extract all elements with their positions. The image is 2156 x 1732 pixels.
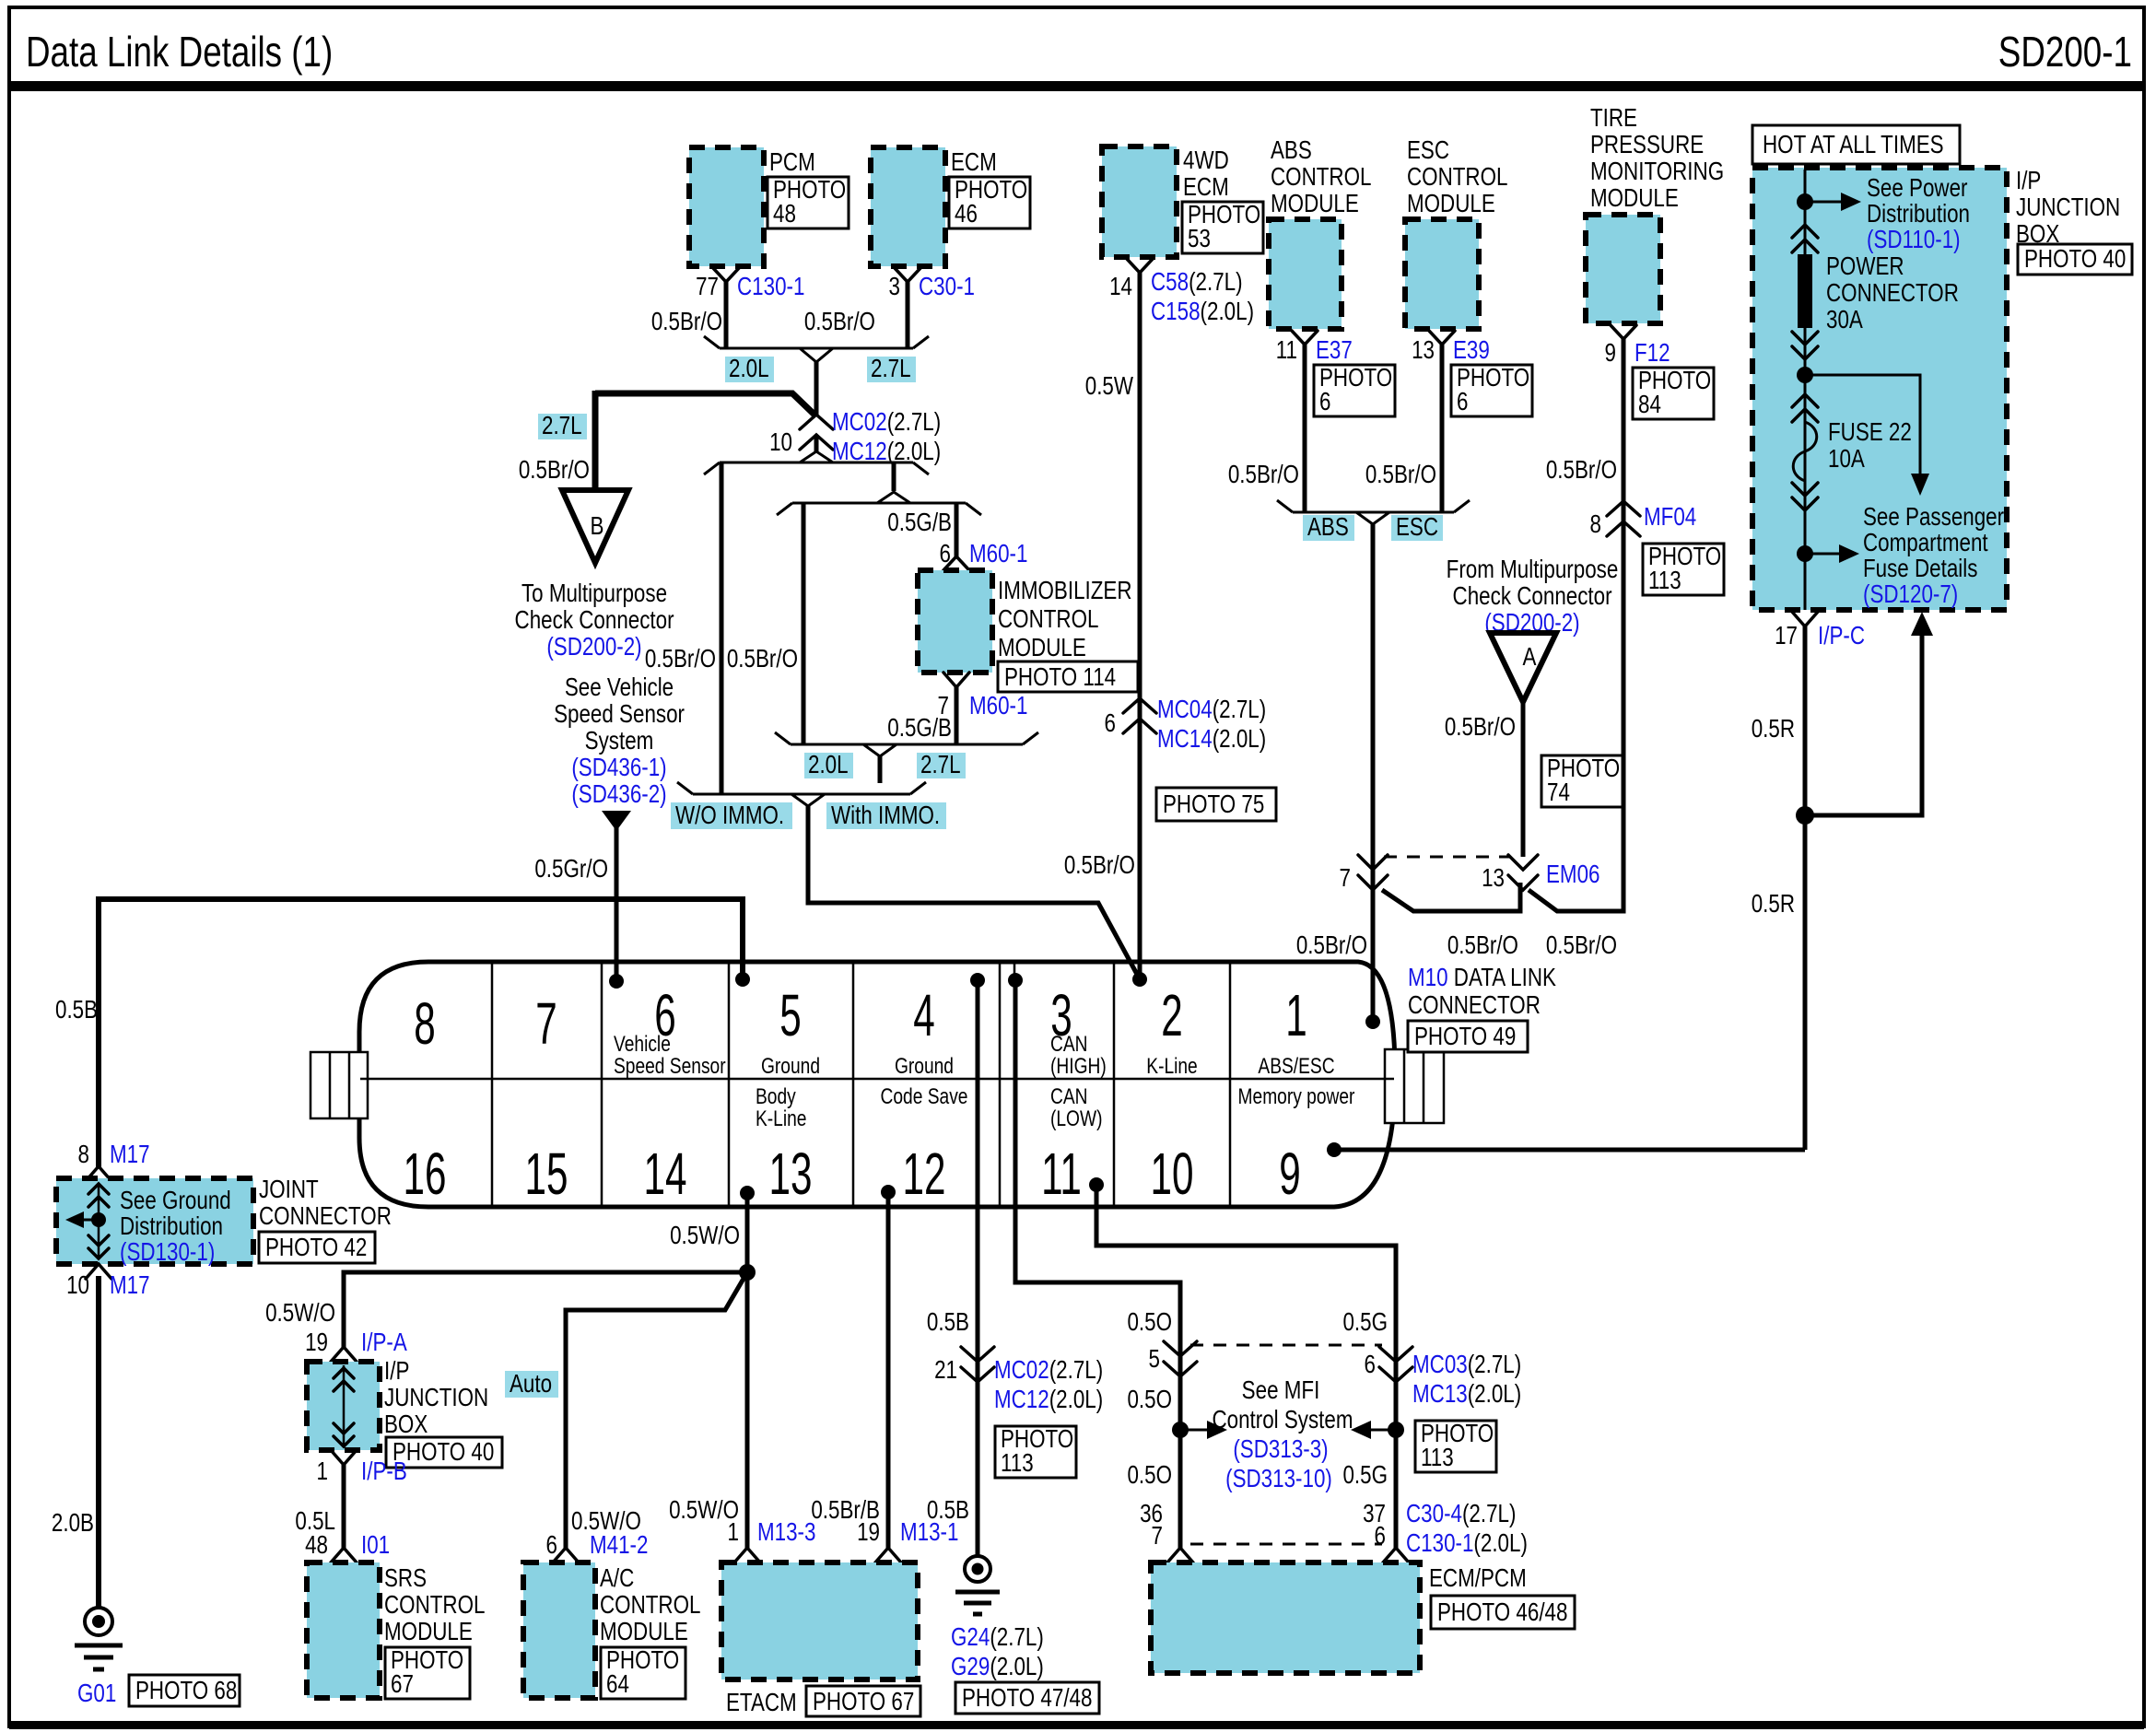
wire to passenger fuse details arrow (1805, 375, 1920, 475)
svg-text:8: 8 (414, 991, 435, 1057)
off-page triangle B (562, 490, 628, 563)
module SRS CONTROL MODULE (cyan dashed box) (307, 1562, 380, 1698)
svg-text:5: 5 (1149, 1345, 1160, 1374)
dashed MFI box top (1190, 1344, 1382, 1347)
photo box PHOTO 75 (1156, 788, 1276, 821)
node pin 1 dot (1365, 1014, 1380, 1029)
svg-text:4: 4 (913, 983, 934, 1048)
svg-text:PHOTO 68: PHOTO 68 (135, 1677, 237, 1705)
photo box PHOTO 6 (1451, 364, 1532, 416)
svg-text:MC04(2.7L): MC04(2.7L) (1157, 696, 1266, 724)
svg-text:W/O IMMO.: W/O IMMO. (675, 802, 784, 830)
connector Y at tire module pin 9 (1611, 325, 1636, 339)
svg-text:CONTROL: CONTROL (384, 1591, 485, 1620)
photo box PHOTO 42 (259, 1232, 375, 1263)
svg-text:2.0L: 2.0L (808, 751, 849, 779)
svg-text:PHOTO 40: PHOTO 40 (2024, 245, 2126, 274)
svg-text:Control System: Control System (1212, 1406, 1353, 1434)
svg-text:PHOTO 42: PHOTO 42 (265, 1234, 367, 1262)
node pin 5 dot (735, 972, 750, 987)
svg-text:13: 13 (1482, 864, 1505, 893)
svg-text:ABS: ABS (1271, 136, 1312, 165)
svg-text:With IMMO.: With IMMO. (831, 802, 940, 830)
svg-text:I01: I01 (361, 1531, 390, 1560)
svg-text:PHOTO 47/48: PHOTO 47/48 (962, 1684, 1092, 1713)
chevrons above power connector (1792, 225, 1818, 252)
inline connector MC03/MC13 pin 6 (1379, 1347, 1412, 1382)
svg-text:ESC: ESC (1407, 136, 1449, 165)
title bar underline (9, 81, 2144, 91)
junction dot 0.5R (1796, 806, 1814, 825)
arrowhead from speed sensor system (602, 811, 631, 831)
svg-text:I/P: I/P (384, 1357, 409, 1386)
svg-text:0.5Br/O: 0.5Br/O (1447, 931, 1518, 960)
node pin 9 dot (1327, 1142, 1342, 1157)
label box HOT AT ALL TIMES (1752, 125, 1960, 164)
svg-text:(SD120-7): (SD120-7) (1863, 580, 1958, 609)
svg-text:Distribution: Distribution (1867, 200, 1970, 228)
junction dot MFI left (1172, 1422, 1189, 1438)
svg-text:7: 7 (1152, 1522, 1163, 1551)
svg-text:See MFI: See MFI (1242, 1376, 1320, 1405)
svg-text:MC14(2.0L): MC14(2.0L) (1157, 725, 1266, 754)
svg-text:MC02(2.7L): MC02(2.7L) (832, 408, 941, 437)
svg-text:0.5Br/O: 0.5Br/O (1546, 931, 1617, 960)
svg-text:CONNECTOR: CONNECTOR (1826, 279, 1959, 308)
svg-text:(SD130-1): (SD130-1) (120, 1238, 215, 1267)
svg-text:ABS: ABS (1307, 513, 1349, 542)
svg-text:A: A (1523, 643, 1537, 672)
svg-text:JUNCTION: JUNCTION (2016, 193, 2120, 222)
connector Y into immobilizer (943, 556, 969, 570)
connector Y into ECM/PCM right (1383, 1548, 1409, 1562)
svg-text:19: 19 (305, 1328, 328, 1357)
wire 2.7L branch horizontal (595, 393, 816, 416)
photo box PHOTO 74 (1541, 755, 1623, 807)
photo box PHOTO 113 (1415, 1420, 1496, 1472)
wire I/P-B to SRS (342, 1465, 346, 1548)
svg-text:G24(2.7L): G24(2.7L) (951, 1623, 1044, 1652)
svg-text:48: 48 (305, 1531, 328, 1560)
svg-text:0.5G: 0.5G (1342, 1308, 1388, 1337)
inline connector MC02/MC12 pin 21 (961, 1347, 994, 1382)
svg-text:0.5R: 0.5R (1752, 890, 1795, 919)
svg-text:1: 1 (317, 1457, 328, 1486)
dashed link connector 7-13 (1384, 856, 1509, 859)
wire MC02 to split bus 1 (814, 435, 819, 451)
svg-text:14: 14 (644, 1141, 687, 1207)
photo box PHOTO 84 (1633, 367, 1714, 419)
wire branch down to B triangle (592, 391, 599, 490)
svg-text:IMMOBILIZER: IMMOBILIZER (998, 577, 1132, 605)
svg-text:C158(2.0L): C158(2.0L) (1151, 298, 1254, 326)
svg-text:(SD436-2): (SD436-2) (571, 780, 666, 809)
svg-text:Fuse Details: Fuse Details (1863, 555, 1977, 583)
wire drop to immobilizer (955, 503, 959, 557)
svg-text:30A: 30A (1826, 306, 1863, 334)
svg-text:14: 14 (1109, 273, 1132, 301)
svg-text:M17: M17 (110, 1271, 150, 1300)
svg-text:PHOTO 49: PHOTO 49 (1414, 1023, 1516, 1051)
svg-text:G01: G01 (77, 1679, 116, 1708)
svg-text:(SD200-2): (SD200-2) (546, 633, 641, 661)
dashed MFI box bottom (1190, 1543, 1382, 1546)
arrow left ground distribution (84, 1219, 99, 1222)
svg-text:See Passenger: See Passenger (1863, 503, 2005, 532)
svg-text:C30-4(2.7L): C30-4(2.7L) (1406, 1500, 1516, 1528)
svg-text:2.7L: 2.7L (871, 355, 911, 383)
svg-text:JUNCTION: JUNCTION (384, 1384, 488, 1412)
connector grid lines (360, 962, 1394, 1207)
svg-text:46: 46 (955, 200, 978, 228)
svg-text:SD200-1: SD200-1 (1998, 28, 2132, 76)
svg-text:6: 6 (1319, 388, 1330, 416)
svg-text:8: 8 (1590, 510, 1601, 539)
ground symbol G01 (75, 1608, 123, 1669)
svg-text:15: 15 (525, 1141, 568, 1207)
wire PCM to merge bus (724, 282, 729, 348)
svg-text:0.5W: 0.5W (1085, 372, 1133, 401)
svg-text:67: 67 (391, 1670, 414, 1699)
svg-text:0.5Br/O: 0.5Br/O (1546, 456, 1617, 485)
photo box PHOTO 40 (2018, 244, 2132, 275)
svg-text:(HIGH): (HIGH) (1050, 1053, 1107, 1079)
svg-text:(LOW): (LOW) (1050, 1106, 1102, 1131)
svg-text:6: 6 (1365, 1351, 1376, 1379)
connector Y at ABS pin 11 (1292, 331, 1318, 345)
svg-text:0.5O: 0.5O (1127, 1386, 1172, 1414)
connector Y at ESC pin 13 (1429, 331, 1455, 345)
svg-text:113: 113 (1001, 1449, 1034, 1478)
wire ABS/ESC merged down to pin 1 (1371, 524, 1376, 1022)
svg-text:0.5O: 0.5O (1127, 1308, 1172, 1337)
svg-text:PHOTO 46/48: PHOTO 46/48 (1437, 1598, 1567, 1627)
svg-text:Speed Sensor: Speed Sensor (614, 1053, 726, 1079)
svg-text:11: 11 (1276, 336, 1297, 365)
svg-text:CONTROL: CONTROL (1407, 163, 1507, 192)
connector Y into ECM/PCM left (1167, 1548, 1193, 1562)
svg-text:0.5G/B: 0.5G/B (887, 509, 952, 537)
svg-text:FUSE 22: FUSE 22 (1828, 418, 1912, 447)
svg-text:ABS/ESC: ABS/ESC (1258, 1053, 1334, 1079)
svg-text:C130-1(2.0L): C130-1(2.0L) (1406, 1529, 1528, 1558)
svg-text:CONTROL: CONTROL (600, 1591, 700, 1620)
arrow to MFI (right) (1180, 1429, 1207, 1432)
svg-text:See Ground: See Ground (120, 1187, 231, 1215)
svg-text:Ground: Ground (761, 1053, 820, 1079)
node pin 4 dot (970, 973, 985, 988)
junction dot body k-line (739, 1264, 756, 1281)
svg-text:PHOTO 40: PHOTO 40 (393, 1438, 494, 1467)
svg-text:CONTROL: CONTROL (1271, 163, 1371, 192)
svg-text:0.5O: 0.5O (1127, 1461, 1172, 1490)
svg-text:1: 1 (728, 1518, 739, 1547)
photo box PHOTO 68 (129, 1675, 240, 1706)
svg-text:0.5R: 0.5R (1752, 715, 1795, 743)
svg-text:10: 10 (66, 1271, 89, 1300)
photo box PHOTO 48 (767, 176, 849, 228)
svg-text:0.5W/O: 0.5W/O (670, 1222, 740, 1250)
svg-text:13: 13 (1412, 336, 1435, 365)
tag ABS (1303, 513, 1354, 542)
merge bus ABS/ESC (1277, 500, 1470, 524)
tag Auto (505, 1370, 558, 1398)
photo box PHOTO 53 (1182, 201, 1263, 253)
wire drop to split bus 2 (892, 462, 896, 491)
module TIRE PRESSURE (cyan dashed box) (1586, 215, 1660, 323)
svg-text:1: 1 (1285, 983, 1306, 1048)
svg-text:CONTROL: CONTROL (998, 605, 1098, 634)
svg-text:64: 64 (606, 1670, 629, 1699)
svg-text:G29(2.0L): G29(2.0L) (951, 1653, 1044, 1681)
tag W/O IMMO. (671, 802, 792, 830)
svg-text:0.5Br/O: 0.5Br/O (1228, 461, 1299, 489)
connector Y at fuse box output I/P-C (1792, 612, 1818, 626)
svg-text:74: 74 (1547, 778, 1570, 807)
wire K-line to pin 2 (808, 806, 1140, 979)
connector Y into SRS (331, 1548, 357, 1562)
svg-text:BOX: BOX (384, 1410, 428, 1439)
svg-text:2.0L: 2.0L (729, 355, 769, 383)
svg-text:K-Line: K-Line (1146, 1053, 1197, 1079)
svg-text:To Multipurpose: To Multipurpose (521, 579, 667, 608)
svg-text:Compartment: Compartment (1863, 529, 1988, 557)
svg-text:CONNECTOR: CONNECTOR (1408, 991, 1541, 1020)
internal arrow I/P box (334, 1365, 354, 1446)
svg-text:3: 3 (889, 273, 900, 301)
svg-text:4WD: 4WD (1183, 146, 1229, 175)
svg-text:MODULE: MODULE (1590, 184, 1679, 213)
inline connector MC02/MC12 pin 10 (800, 415, 833, 450)
svg-text:PCM: PCM (769, 148, 815, 177)
wire I/P-C down (1803, 626, 1808, 1150)
split bus 2 (777, 492, 981, 515)
connector M10 outline (359, 962, 1395, 1207)
connector chevron into joint box (86, 1166, 111, 1181)
node pin 6 dot (609, 974, 624, 989)
module A/C CONTROL MODULE (cyan dashed box) (523, 1562, 595, 1698)
junction dot ground distribution (91, 1212, 106, 1227)
wire 4WD ECM down to pin 2 (1138, 273, 1142, 979)
svg-text:2: 2 (1161, 983, 1182, 1048)
connector Y at ECM pin 3 (895, 268, 920, 282)
svg-text:2.7L: 2.7L (920, 751, 961, 779)
svg-text:ECM: ECM (951, 148, 997, 177)
svg-text:77: 77 (696, 273, 719, 301)
svg-text:Auto: Auto (510, 1370, 552, 1398)
connector marker I/P-B (331, 1450, 357, 1465)
svg-text:HOT AT ALL TIMES: HOT AT ALL TIMES (1763, 131, 1944, 159)
connector chevron out of joint box (86, 1264, 111, 1279)
svg-text:EM06: EM06 (1546, 860, 1600, 889)
wire fuse box vertical (1804, 170, 1807, 610)
svg-text:0.5Br/O: 0.5Br/O (1365, 461, 1436, 489)
junction dot before fuse (1797, 367, 1813, 383)
merge bus 2 (W/O IMMO / With IMMO) (677, 782, 926, 806)
fuse symbol FUSE 22 (1792, 394, 1818, 422)
module ECM/PCM (cyan dashed box) (1151, 1562, 1420, 1673)
svg-text:16: 16 (404, 1141, 447, 1207)
svg-text:0.5Br/O: 0.5Br/O (1445, 713, 1516, 742)
svg-text:MODULE: MODULE (1407, 190, 1495, 218)
wire tire module down (1622, 339, 1626, 884)
chevrons below power connector (1792, 332, 1818, 359)
module ABS CONTROL MODULE (cyan dashed box) (1269, 219, 1342, 329)
svg-text:I/P-B: I/P-B (361, 1457, 407, 1486)
svg-text:Speed Sensor: Speed Sensor (554, 700, 685, 729)
svg-text:MODULE: MODULE (600, 1618, 688, 1646)
svg-text:0.5Br/O: 0.5Br/O (645, 645, 716, 673)
wire memory power horizontal to pin 9 (1334, 1148, 1805, 1153)
svg-text:53: 53 (1188, 225, 1211, 253)
node pin 3 dot (1008, 973, 1023, 988)
svg-text:I/P-A: I/P-A (361, 1328, 407, 1357)
svg-text:0.5Br/O: 0.5Br/O (1296, 931, 1367, 960)
svg-text:0.5W/O: 0.5W/O (265, 1299, 335, 1328)
connector marker I/P-A (331, 1347, 357, 1362)
wire branch up arrow into fuse box (1805, 634, 1922, 815)
svg-text:48: 48 (773, 200, 796, 228)
wire A down to EM06 (1521, 702, 1526, 857)
svg-text:PHOTO 114: PHOTO 114 (1004, 663, 1116, 692)
svg-text:Distribution: Distribution (120, 1212, 223, 1241)
inline connector pin 7 (to EM06) (1358, 855, 1388, 890)
svg-text:6: 6 (1105, 709, 1116, 738)
module ECM (cyan dashed box) (871, 147, 945, 266)
inline connector pin 5 (1164, 1341, 1197, 1376)
svg-text:(SD110-1): (SD110-1) (1867, 226, 1961, 254)
svg-text:13: 13 (769, 1141, 813, 1207)
photo box PHOTO 67 (385, 1646, 470, 1699)
module IMMOBILIZER CONTROL MODULE (cyan dashed box) (918, 570, 992, 673)
svg-text:11: 11 (1041, 1141, 1082, 1207)
svg-text:B: B (591, 512, 604, 541)
off-page triangle A (1490, 633, 1556, 702)
svg-text:From Multipurpose: From Multipurpose (1447, 556, 1619, 584)
tag 2.0L (804, 751, 853, 779)
svg-text:7: 7 (535, 991, 557, 1057)
svg-text:2.7L: 2.7L (542, 412, 582, 440)
svg-text:0.5B: 0.5B (927, 1308, 969, 1337)
tag 2.7L (867, 355, 916, 383)
svg-text:See Power: See Power (1867, 174, 1968, 203)
wire pin7 branch to EM06 (1382, 883, 1520, 911)
svg-text:Check Connector: Check Connector (515, 606, 674, 635)
wire M17 to ground G01 (96, 1276, 101, 1607)
arrow to see passenger fuse details (1805, 553, 1839, 556)
svg-text:0.5B: 0.5B (927, 1496, 969, 1525)
svg-text:M10 DATA LINK: M10 DATA LINK (1408, 964, 1556, 992)
svg-text:6: 6 (546, 1531, 557, 1560)
svg-text:5: 5 (779, 983, 801, 1048)
svg-text:9: 9 (1605, 339, 1616, 368)
svg-text:19: 19 (857, 1518, 880, 1547)
photo box PHOTO 46 (949, 176, 1030, 228)
I/P junction box (cyan dashed) (307, 1362, 380, 1450)
bottom frame line (9, 1721, 2144, 1729)
svg-text:0.5Br/O: 0.5Br/O (1064, 851, 1135, 880)
svg-text:CONNECTOR: CONNECTOR (259, 1202, 392, 1231)
connector Y into ETACM right (875, 1548, 901, 1562)
module 4WD ECM (cyan dashed box) (1102, 146, 1177, 257)
svg-text:PHOTO 67: PHOTO 67 (813, 1688, 914, 1716)
merge arms to node (800, 348, 833, 362)
svg-text:MONITORING: MONITORING (1590, 158, 1724, 186)
svg-text:84: 84 (1638, 391, 1661, 419)
svg-text:MC12(2.0L): MC12(2.0L) (994, 1386, 1103, 1414)
photo box PHOTO 6 (1314, 364, 1395, 416)
photo box PHOTO 40 (386, 1437, 502, 1468)
joint connector internal arrow (88, 1183, 109, 1258)
svg-text:0.5G: 0.5G (1342, 1461, 1388, 1490)
svg-text:17: 17 (1775, 622, 1798, 650)
wire pin 5 to left rail (99, 899, 743, 1168)
svg-text:PRESSURE: PRESSURE (1590, 131, 1704, 159)
svg-text:K-Line: K-Line (756, 1106, 806, 1131)
module ESC CONTROL MODULE (cyan dashed box) (1405, 219, 1479, 329)
wire merged down (878, 756, 883, 783)
svg-text:ECM: ECM (1183, 173, 1229, 202)
wire pin 13 down (745, 1193, 750, 1272)
photo box PHOTO 113 (1643, 543, 1724, 595)
junction dot power distribution (1797, 193, 1813, 210)
wire ECM to merge bus (906, 282, 910, 348)
svg-text:SRS: SRS (384, 1564, 427, 1593)
svg-text:12: 12 (903, 1141, 946, 1207)
svg-text:(SD313-3): (SD313-3) (1233, 1435, 1328, 1464)
wire merged down to MC02 connector (814, 362, 819, 415)
arrow to see power distribution (1805, 201, 1841, 204)
svg-text:6: 6 (1457, 388, 1468, 416)
svg-text:E39: E39 (1453, 336, 1490, 365)
svg-text:MODULE: MODULE (1271, 190, 1359, 218)
photo box PHOTO 113 (995, 1425, 1076, 1478)
tag 2.7L (917, 751, 966, 779)
inline connector MF04 pin 8 (1607, 501, 1640, 536)
svg-text:ETACM: ETACM (726, 1689, 797, 1717)
svg-text:(SD436-1): (SD436-1) (571, 754, 666, 782)
svg-text:10A: 10A (1828, 445, 1865, 474)
svg-text:6: 6 (1375, 1522, 1386, 1551)
svg-text:(SD313-10): (SD313-10) (1225, 1465, 1332, 1493)
inline connector MC04/MC14 pin 6 (1123, 698, 1156, 733)
wire speed sensor to pin 6 (615, 825, 619, 981)
svg-text:I/P: I/P (2016, 167, 2041, 195)
svg-text:C58(2.7L): C58(2.7L) (1151, 268, 1243, 297)
svg-text:9: 9 (1279, 1141, 1300, 1207)
svg-text:0.5G/B: 0.5G/B (887, 714, 952, 743)
split bus 1 (704, 451, 929, 474)
connector Y into ETACM left (734, 1548, 760, 1562)
svg-text:TIRE: TIRE (1590, 104, 1637, 133)
svg-text:0.5Br/O: 0.5Br/O (519, 456, 590, 485)
wire pin 11 CAN LOW (1096, 1185, 1396, 1548)
wire with-immo left drop (802, 503, 806, 744)
ground symbol G24 (955, 1556, 1000, 1614)
tag ESC (1391, 513, 1443, 542)
svg-text:JOINT: JOINT (259, 1176, 319, 1204)
hatched tab left (311, 1052, 368, 1118)
photo box PHOTO 49 (1408, 1021, 1528, 1052)
junction dot passenger compartment (1797, 545, 1813, 562)
merge bus 1 (2.0L/2.7L) (775, 732, 1038, 756)
power connector bar (1798, 254, 1812, 328)
svg-text:0.5Br/O: 0.5Br/O (651, 308, 722, 336)
svg-text:M60-1: M60-1 (969, 540, 1027, 568)
svg-text:10: 10 (1151, 1141, 1194, 1207)
inline connector EM06 pin 13 (1508, 855, 1538, 890)
wire pin 4 down to ground (976, 980, 980, 1557)
